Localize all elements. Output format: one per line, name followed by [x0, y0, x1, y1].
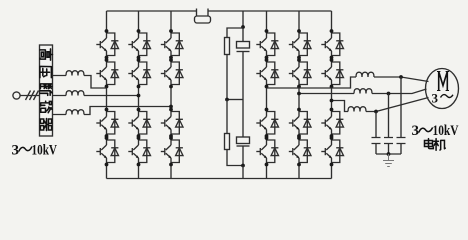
node phase B / leg B	[137, 94, 141, 98]
IGBT cell Q6 with freewheel diode (rectifier leg B, row 2)	[128, 58, 150, 88]
wire rectifier leg B bottom stub	[138, 165, 140, 179]
wire inverter leg V top stub	[298, 11, 300, 31]
output reactor L4	[356, 72, 374, 77]
IGBT cell Q3 with freewheel diode (rectifier leg A, row 3)	[96, 108, 118, 138]
breaker label char gao (rotated)	[40, 49, 53, 60]
IGBT cell Q5 with freewheel diode (rectifier leg B, row 1)	[128, 29, 150, 59]
node phase C / leg C	[169, 105, 173, 109]
wire ground stem	[388, 154, 390, 160]
resistor R1 (upper balancing)	[225, 38, 230, 55]
breaker label char qi (rotated)	[40, 119, 51, 131]
node DC branch top	[241, 25, 245, 29]
wire inverter leg U midpoint	[266, 87, 268, 110]
capacitor C1 (upper DC-link, electrolytic)	[237, 28, 250, 100]
node output V / leg V	[297, 92, 301, 96]
3-phase slash marks	[26, 91, 39, 101]
wire inverter leg U bottom stub	[266, 165, 268, 179]
wire rectifier leg A midpoint	[106, 87, 108, 110]
filter capacitor C4	[384, 138, 393, 155]
input reactor L2	[66, 91, 84, 96]
IGBT cell Q11 with freewheel diode (rectifier leg C, row 3)	[161, 108, 183, 138]
wire rectifier leg C top stub	[170, 11, 172, 31]
breaker label char ya2 (rotated)	[40, 66, 51, 77]
IGBT cell Q4 with freewheel diode (rectifier leg A, row 4)	[96, 136, 118, 166]
wire rectifier leg A bottom stub	[106, 165, 108, 179]
capacitor C2 (lower DC-link, electrolytic)	[237, 100, 250, 166]
wire output U to motor	[374, 77, 429, 82]
motor M 3~	[426, 69, 459, 109]
IGBT cell Q8 with freewheel diode (rectifier leg B, row 4)	[128, 136, 150, 166]
wire rectifier leg B top stub	[138, 11, 140, 31]
top DC bus (right segment)	[208, 10, 332, 12]
wire DC midpoint bar	[227, 99, 243, 101]
IGBT cell Q10 with freewheel diode (rectifier leg C, row 2)	[161, 58, 183, 88]
label 3~10kV (input)	[12, 143, 58, 159]
bottom DC bus	[107, 178, 332, 180]
fuse F1 in top bus	[195, 9, 211, 24]
wire to balancing resistor R1	[227, 28, 243, 38]
IGBT cell Q22 with freewheel diode (inverter leg W, row 2)	[321, 58, 343, 88]
wire output V	[299, 93, 354, 95]
wire inverter leg V midpoint	[298, 87, 300, 110]
output reactor L6	[348, 107, 366, 112]
output reactor L5	[354, 89, 372, 94]
label 3~10kV (motor)	[412, 123, 459, 139]
node midpoint left	[225, 98, 229, 102]
svg-text:10kV: 10kV	[433, 123, 459, 139]
wire R1 to midpoint	[226, 55, 228, 100]
IGBT cell Q23 with freewheel diode (inverter leg W, row 3)	[321, 108, 343, 138]
breaker label char lu (rotated)	[41, 101, 52, 113]
svg-text:10kV: 10kV	[32, 143, 58, 159]
IGBT cell Q24 with freewheel diode (inverter leg W, row 4)	[321, 136, 343, 166]
wire filter drop x=376	[375, 112, 377, 138]
wire rectifier leg A top stub	[106, 11, 108, 31]
IGBT cell Q17 with freewheel diode (inverter leg V, row 1)	[289, 29, 311, 59]
wire rectifier leg B midpoint	[138, 87, 140, 110]
svg-text:3: 3	[412, 123, 420, 139]
node output U / filter tap	[399, 75, 403, 79]
wire inverter leg W midpoint	[331, 87, 333, 110]
HV circuit breaker box QF (label 高压断路器)	[40, 45, 53, 136]
filter capacitor C5	[372, 138, 381, 155]
svg-text:3: 3	[12, 143, 20, 159]
wire rectifier leg C midpoint	[170, 87, 172, 110]
wire filter common bus	[376, 153, 401, 155]
wire inverter leg V bottom stub	[298, 165, 300, 179]
filter capacitor C3	[397, 138, 406, 155]
wire rectifier leg C bottom stub	[170, 165, 172, 179]
wire phase C	[53, 107, 172, 115]
node output W / leg W	[330, 99, 334, 103]
node output W / filter tap	[374, 110, 378, 114]
input reactor L3	[66, 110, 84, 115]
wire DC+ branch drop	[242, 11, 244, 28]
IGBT cell Q2 with freewheel diode (rectifier leg A, row 2)	[96, 58, 118, 88]
wire output U (leg U to reactor)	[267, 77, 357, 88]
wire filter drop x=388.5	[388, 94, 390, 138]
IGBT cell Q13 with freewheel diode (inverter leg U, row 1)	[256, 29, 278, 59]
IGBT cell Q20 with freewheel diode (inverter leg V, row 4)	[289, 136, 311, 166]
label 电机 (motor)	[424, 139, 433, 149]
IGBT cell Q21 with freewheel diode (inverter leg W, row 1)	[321, 29, 343, 59]
input reactor L1	[66, 71, 84, 76]
resistor R2 (lower balancing)	[225, 134, 230, 150]
wire inverter leg U top stub	[266, 11, 268, 31]
node output V / filter tap	[387, 92, 391, 96]
IGBT cell Q7 with freewheel diode (rectifier leg B, row 3)	[128, 108, 150, 138]
breaker label char duan (rotated)	[40, 84, 52, 95]
top DC bus (left segment)	[107, 10, 197, 12]
svg-text:3: 3	[432, 91, 439, 106]
wire output W to motor	[366, 98, 429, 112]
wire inverter leg W top stub	[331, 11, 333, 31]
IGBT cell Q1 with freewheel diode (rectifier leg A, row 1)	[96, 29, 118, 59]
IGBT cell Q12 with freewheel diode (rectifier leg C, row 4)	[161, 136, 183, 166]
IGBT cell Q18 with freewheel diode (inverter leg V, row 2)	[289, 58, 311, 88]
wire join to bottom bus	[242, 166, 244, 179]
node DC bottom join	[241, 164, 245, 168]
source terminal	[13, 92, 40, 99]
wire inverter leg W bottom stub	[331, 165, 333, 179]
ground symbol	[383, 161, 394, 167]
IGBT cell Q16 with freewheel diode (inverter leg U, row 4)	[256, 136, 278, 166]
wire phase B	[53, 95, 139, 97]
IGBT cell Q14 with freewheel diode (inverter leg U, row 2)	[256, 58, 278, 88]
wire phase A (breaker to leg A midpoint)	[53, 76, 107, 89]
node filter common	[387, 152, 391, 156]
wire R2 to bottom join	[227, 150, 243, 166]
wire output W	[332, 101, 349, 112]
wire filter drop x=401	[400, 77, 402, 138]
IGBT cell Q15 with freewheel diode (inverter leg U, row 3)	[256, 108, 278, 138]
wire output V to motor	[372, 89, 427, 94]
wire to resistor R2	[226, 100, 228, 134]
IGBT cell Q19 with freewheel diode (inverter leg V, row 3)	[289, 108, 311, 138]
IGBT cell Q9 with freewheel diode (rectifier leg C, row 1)	[161, 29, 183, 59]
